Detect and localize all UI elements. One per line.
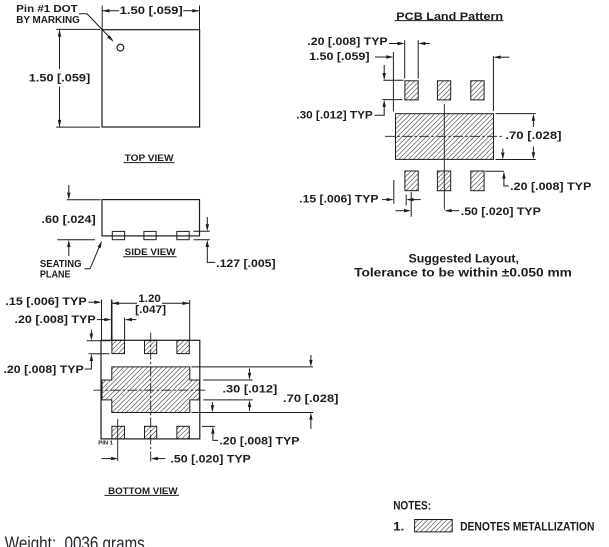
svg-text:.70 [.028]: .70 [.028] xyxy=(283,393,339,405)
land pattern: top pad 3 (hatched) xyxy=(471,81,484,100)
top view: pin #1 dot (circle) xyxy=(117,44,124,51)
bottom view: dimension .20 [.008] TYP (pad width) with leader xyxy=(124,318,126,341)
side view: terminal pad 2 xyxy=(144,231,156,239)
bottom view: dimension .20 [.008] TYP (bottom right) with elbow leader xyxy=(202,425,215,427)
svg-text:.127 [.005]: .127 [.005] xyxy=(216,258,276,270)
bottom view: center thermal pad with wings (hatched) xyxy=(102,367,199,413)
top view: pin #1 leader line with arrowhead xyxy=(79,14,112,40)
bottom view: dimension .30 [.012] xyxy=(249,369,251,373)
land pattern: bottom pad 3 (hatched) xyxy=(471,171,484,191)
svg-text:1.50 [.059]: 1.50 [.059] xyxy=(120,5,183,17)
land pattern: dimension 1.50 [.059] (overall width) xyxy=(392,52,394,112)
land pattern: vertical centerline xyxy=(443,104,445,210)
bottom view: pad D centerline xyxy=(117,419,119,461)
top view: vertical dimension 1.50 [.059] xyxy=(56,28,100,30)
bottom view: right extension line (center pad top) xyxy=(192,366,314,368)
svg-text:SEATING: SEATING xyxy=(40,259,82,270)
svg-text:.20 [.008] TYP: .20 [.008] TYP xyxy=(307,36,388,48)
svg-text:Suggested Layout,: Suggested Layout, xyxy=(409,252,519,266)
bottom view: pad F (bottom-right, hatched) xyxy=(177,426,189,439)
side view: height dimension .60 [.024] xyxy=(67,199,101,201)
svg-text:1.: 1. xyxy=(393,520,404,534)
svg-text:.60 [.024]: .60 [.024] xyxy=(42,214,97,226)
land pattern: dimension .20 [.008] TYP (gap, bottom right) with elbow leader xyxy=(485,170,504,172)
top view: horizontal dimension 1.50 [.059] xyxy=(101,6,103,30)
bottom view: pad D (bottom-left, hatched) xyxy=(112,426,125,439)
side view: standoff dimension .127 [.005] xyxy=(194,230,210,232)
side view: terminal pad 3 xyxy=(177,231,189,239)
bottom view: dimension 1.20 [.047] xyxy=(111,300,113,341)
land pattern: dimension .20 [.008] TYP (top pad width) xyxy=(404,40,406,78)
bottom view: right extension line (center pad bottom) xyxy=(192,412,314,414)
bottom view: pad E (bottom-middle, hatched) xyxy=(145,426,157,439)
bottom view: right extension line (wing bottom) xyxy=(203,399,252,401)
svg-text:.20 [.008] TYP: .20 [.008] TYP xyxy=(4,364,85,376)
bottom view: pad A (top-left, hatched) xyxy=(112,340,125,353)
side view: package body outline xyxy=(102,200,200,236)
top view: package body outline xyxy=(102,30,200,127)
svg-text:BY MARKING: BY MARKING xyxy=(16,15,80,26)
land pattern: dimension .50 [.020] TYP (pitch) xyxy=(410,192,412,217)
svg-text:PLANE: PLANE xyxy=(40,270,71,281)
land pattern: dimension .30 [.012] TYP (pad height) with elbow leader xyxy=(383,79,403,81)
svg-text:.50 [.020] TYP: .50 [.020] TYP xyxy=(461,206,542,218)
land pattern: bottom pad 1 (hatched) xyxy=(405,171,418,191)
land pattern: top pad 1 (hatched) xyxy=(405,81,418,100)
bottom view: dimension .15 [.006] TYP with leader xyxy=(101,300,103,341)
svg-text:.70 [.028]: .70 [.028] xyxy=(505,130,562,142)
land pattern: dimension .15 [.006] TYP with leader xyxy=(393,180,395,204)
notes: metallization hatch swatch xyxy=(415,520,453,532)
svg-text:1.50 [.059]: 1.50 [.059] xyxy=(29,73,91,85)
land pattern: dimension .70 [.028] (center pad height) xyxy=(496,113,536,115)
bottom view: pad C (top-right, hatched) xyxy=(177,340,189,353)
svg-text:[.047]: [.047] xyxy=(135,304,166,316)
bottom view: package outline xyxy=(101,340,200,439)
land pattern: center pad (hatched) xyxy=(396,114,494,160)
land pattern: bottom pad 2 (hatched) xyxy=(437,171,450,191)
land pattern: top pad 2 (hatched) xyxy=(437,81,450,100)
bottom view: pad B (top-middle, hatched) xyxy=(145,340,157,353)
svg-text:.20 [.008] TYP: .20 [.008] TYP xyxy=(510,181,592,193)
svg-text:PIN 1: PIN 1 xyxy=(98,440,113,446)
svg-text:.20 [.008] TYP: .20 [.008] TYP xyxy=(15,314,97,326)
svg-text:Tolerance to be within ±0.050: Tolerance to be within ±0.050 mm xyxy=(354,266,572,280)
svg-text:.15 [.006] TYP: .15 [.006] TYP xyxy=(299,194,379,206)
svg-text:DENOTES METALLIZATION: DENOTES METALLIZATION xyxy=(460,520,594,534)
bottom view: dimension .50 [.020] TYP xyxy=(101,458,111,460)
svg-text:Pin #1 DOT: Pin #1 DOT xyxy=(16,4,77,15)
bottom view: right extension line (wing top) xyxy=(203,379,252,381)
side view: terminal pad 1 xyxy=(112,231,124,239)
land pattern: horizontal centerline xyxy=(385,135,502,137)
svg-text:.30 [.012] TYP: .30 [.012] TYP xyxy=(296,109,373,121)
svg-text:.15 [.006] TYP: .15 [.006] TYP xyxy=(5,296,87,308)
bottom view: vertical centerline xyxy=(150,333,152,462)
svg-text:NOTES:: NOTES: xyxy=(393,498,431,512)
svg-text:.50 [.020] TYP: .50 [.020] TYP xyxy=(171,453,252,465)
bottom view: dimension .20 [.008] TYP (pad height) left side xyxy=(87,340,111,342)
bottom view: horizontal centerline xyxy=(93,389,207,391)
bottom view: dimension .70 [.028] xyxy=(310,355,312,360)
svg-text:.30 [.012]: .30 [.012] xyxy=(223,383,278,395)
svg-text:.20 [.008] TYP: .20 [.008] TYP xyxy=(219,435,300,447)
svg-text:Weight: .0036 grams: Weight: .0036 grams xyxy=(5,534,145,547)
svg-text:1.50 [.059]: 1.50 [.059] xyxy=(309,51,370,63)
